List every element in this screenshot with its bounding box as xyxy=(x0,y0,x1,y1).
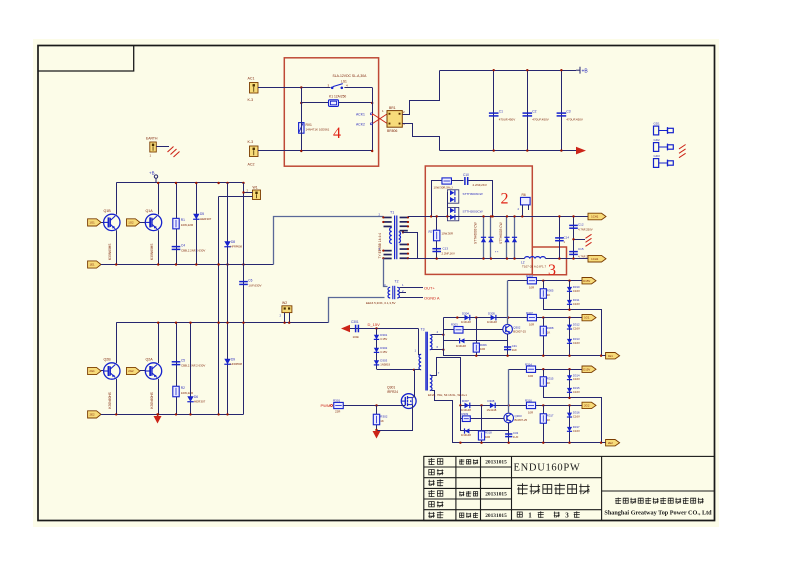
svg-text:ACK1: ACK1 xyxy=(356,112,365,116)
wire +B rail upper block xyxy=(116,182,244,184)
connector W1 xyxy=(253,190,261,200)
capacitor C14 xyxy=(555,238,564,241)
wire chassis stub xyxy=(574,239,586,241)
svg-text:C5: C5 xyxy=(181,359,185,363)
junction drain node xyxy=(413,369,415,371)
wire R6 pin2 xyxy=(528,205,530,210)
junction lower rail x243.5 xyxy=(242,263,244,265)
T1 core xyxy=(395,216,397,260)
junction lower bottom rail x157.5 xyxy=(156,413,158,415)
wire R6 pin1 xyxy=(522,205,524,217)
wire gd1 bottom row xyxy=(443,355,605,357)
transistor Q2B xyxy=(104,363,120,379)
junction W2 pin2 xyxy=(288,322,290,324)
T1 pin dot 408,217.4 xyxy=(407,216,409,218)
red group box 2 (output rectifier) xyxy=(425,166,532,274)
svg-text:C13: C13 xyxy=(443,247,449,251)
svg-text:T2: T2 xyxy=(395,280,399,284)
junction source node xyxy=(375,429,377,431)
diode D309 xyxy=(465,428,470,433)
junction W1 bus C xyxy=(242,191,244,193)
junction lower bottom rail x190.5 xyxy=(189,413,191,415)
junction secA top xyxy=(442,334,444,336)
junction C2 bottom xyxy=(526,149,528,151)
diode D4b xyxy=(450,215,455,220)
wire C5 branch vertical xyxy=(176,323,178,415)
junction lower top rail x158.2 xyxy=(157,322,159,324)
T1 primary winding arcs xyxy=(390,228,392,244)
aux part R6 jumper xyxy=(521,197,531,205)
power port +B (cap bank) xyxy=(576,67,588,75)
svg-text:D308: D308 xyxy=(488,399,495,403)
wire W1 pin2 to bus A xyxy=(219,196,253,198)
wire output return row right xyxy=(546,258,589,260)
red group box 3 (output choke) xyxy=(532,247,566,275)
junction gd2 top zener xyxy=(568,368,570,370)
wire PWM to R301 xyxy=(332,405,334,407)
wire lower rail to T2 primary xyxy=(329,298,385,323)
junction lower rail x196.3 xyxy=(195,263,197,265)
svg-text:10R: 10R xyxy=(485,435,490,439)
wire Q301 source xyxy=(377,405,413,431)
svg-text:1K: 1K xyxy=(380,419,384,423)
approver name 徐德进 xyxy=(460,512,479,518)
resistor R2 snubber xyxy=(173,386,179,397)
wire Q1B collector xyxy=(116,183,118,215)
wire zener col2 gd2 xyxy=(569,405,571,442)
wire R306 branch xyxy=(476,318,478,356)
power ground arrow lower block xyxy=(154,416,162,424)
svg-text:Q1B: Q1B xyxy=(104,209,112,213)
svg-text:4.7NF,250V: 4.7NF,250V xyxy=(578,227,593,231)
svg-text:BR1: BR1 xyxy=(389,106,396,110)
svg-text:IRFR24: IRFR24 xyxy=(387,390,398,394)
diode D3b xyxy=(450,197,455,202)
junction gd1 mid 1 xyxy=(507,316,509,318)
wire zener chain xyxy=(376,329,378,370)
T1 pin dot 408,258.2 xyxy=(407,257,409,259)
svg-text:T1: T1 xyxy=(390,211,394,215)
power arrow D_15V (left) xyxy=(341,325,350,333)
junction gd1 mid 2 xyxy=(542,316,544,318)
power arrow negative rail xyxy=(576,147,586,155)
junction gd2 mid 0 xyxy=(459,404,461,406)
svg-text:Q1A: Q1A xyxy=(146,209,154,213)
diode D304 xyxy=(465,315,470,321)
wire Q301 drain xyxy=(413,370,415,398)
wire AC2 to rail xyxy=(258,150,372,152)
svg-text:4: 4 xyxy=(333,125,341,142)
T2 primary arcs xyxy=(388,287,390,298)
wire T3 secA bottom xyxy=(431,349,443,351)
svg-text:3: 3 xyxy=(565,511,569,519)
junction gd1 bottom x507.6 xyxy=(506,355,508,357)
junction rect diode bot 11 xyxy=(513,257,515,259)
wire T2 secondary pin2 stub xyxy=(400,292,407,294)
junction gd2 bottom x569.5 xyxy=(568,442,570,444)
svg-text:14N471K 10D561: 14N471K 10D561 xyxy=(306,128,330,132)
svg-text:AC2: AC2 xyxy=(248,163,255,167)
svg-text:D5: D5 xyxy=(200,212,204,216)
wire gd1 top row xyxy=(508,280,582,282)
wire negative bottom rail xyxy=(440,150,576,152)
wire rect diode 10 vertical xyxy=(506,216,508,258)
junction emitter rail bus A xyxy=(217,263,219,265)
svg-text:R304: R304 xyxy=(526,274,533,278)
T3 primary arcs xyxy=(419,354,421,369)
junction C12 bot xyxy=(572,257,574,259)
connector 1G1 out xyxy=(582,314,596,320)
svg-text:10W,22R: 10W,22R xyxy=(181,223,194,227)
svg-text:STTH3003CW: STTH3003CW xyxy=(463,192,483,196)
svg-text:C2: C2 xyxy=(532,110,536,114)
wire emitter rail lower block xyxy=(101,414,244,416)
connector 2G1 (gate Q2B) xyxy=(88,367,101,374)
svg-text:2.2NF,1KV: 2.2NF,1KV xyxy=(442,252,456,256)
connector AC1 xyxy=(250,83,259,94)
junction snubber right xyxy=(492,215,494,217)
svg-text:OGND A: OGND A xyxy=(424,296,440,301)
junction mid link xyxy=(568,309,570,311)
svg-text:2G2: 2G2 xyxy=(584,404,590,408)
power port +B upper block xyxy=(149,171,158,184)
svg-text:1K: 1K xyxy=(547,381,551,385)
svg-text:PWM: PWM xyxy=(321,403,331,408)
diode D6 xyxy=(187,396,193,401)
T1 pin dot 383.3,258.2 xyxy=(382,257,384,259)
title row label 2 (Chinese) xyxy=(429,469,444,475)
wire D15V rail xyxy=(350,328,360,330)
zener D301 xyxy=(374,335,379,340)
border frame xyxy=(38,46,715,521)
svg-text:C14: C14 xyxy=(564,235,570,239)
junction diode pack xyxy=(446,215,448,217)
wire diode packs feed xyxy=(447,192,449,216)
auditor name 刘纪周 xyxy=(459,491,478,497)
svg-text:1G1: 1G1 xyxy=(89,221,95,225)
svg-text:+B: +B xyxy=(582,68,589,74)
wire T2 secondary pin3 xyxy=(400,297,424,299)
junction lower rail x158.2 xyxy=(157,263,159,265)
svg-text:W1: W1 xyxy=(253,185,258,189)
wire T2 secondary pin1 xyxy=(400,287,424,289)
stud terminal GD3 xyxy=(654,159,674,168)
junction AC2 left node xyxy=(300,150,302,152)
svg-text:1G2: 1G2 xyxy=(128,221,134,225)
svg-text:W2: W2 xyxy=(282,301,287,305)
wire bus A vertical xyxy=(218,197,220,415)
T1 pin dot 383.3,250.6 xyxy=(382,250,384,252)
T1 pin dot 408,249 xyxy=(407,248,409,250)
junction rect diode top 11 xyxy=(513,215,515,217)
connector W2 xyxy=(282,306,292,313)
capacitor C13a xyxy=(432,249,441,252)
wire Q303 emitter xyxy=(508,369,510,413)
junction C1 top xyxy=(493,69,495,71)
diode D306 xyxy=(460,338,465,343)
mosfet Q301 xyxy=(401,394,416,409)
wire +B top rail xyxy=(440,70,576,72)
svg-text:BC807-25: BC807-25 xyxy=(513,329,526,333)
svg-text:C15: C15 xyxy=(578,247,584,251)
junction rect diode bot 01 xyxy=(490,257,492,259)
junction gd2 mid 1 xyxy=(508,404,510,406)
svg-text:K30N60HS: K30N60HS xyxy=(150,243,154,260)
svg-text:EARTH: EARTH xyxy=(146,137,158,141)
diode D5 xyxy=(193,214,199,219)
T1 pin dot 408,222 xyxy=(407,221,409,223)
wire R308 branch xyxy=(543,318,545,356)
svg-text:D8: D8 xyxy=(231,240,235,244)
transistor Q1B xyxy=(104,214,120,230)
junction gd2 bottom x508.7 xyxy=(508,442,510,444)
wire zener col1 gd2 xyxy=(569,369,571,398)
svg-text:2E2: 2E2 xyxy=(608,441,613,445)
junction C3 bottom xyxy=(560,149,562,151)
junction R7 bottom xyxy=(436,257,438,259)
connector AC2 xyxy=(250,146,259,157)
connector OUT1+ xyxy=(588,213,606,220)
wire Q2A emitter xyxy=(158,379,160,415)
junction lower rail x176 xyxy=(175,263,177,265)
svg-text:R7: R7 xyxy=(429,230,433,234)
wire Q1A collector xyxy=(158,183,160,215)
wire gd1 aux to collector xyxy=(507,341,509,342)
svg-text:1UF: 1UF xyxy=(513,435,519,439)
svg-text:1N4148: 1N4148 xyxy=(487,408,497,412)
chassis ground at GD2 xyxy=(679,145,686,158)
junction W2 pin1 xyxy=(283,322,285,324)
wire switch to right rail xyxy=(344,87,372,89)
connector 1E1 (emitter) xyxy=(88,261,101,268)
junction C12 top xyxy=(572,215,574,217)
resistor R317 xyxy=(540,414,546,424)
connector 2E2 (emitter) xyxy=(88,411,101,418)
wire relay coil row xyxy=(301,102,372,104)
relay coil K1 xyxy=(329,100,339,107)
svg-text:ENDU160PW: ENDU160PW xyxy=(514,462,581,473)
T1 pin dot 408,253.6 xyxy=(407,253,409,255)
junction C2 top xyxy=(526,69,528,71)
wire D5 branch vertical xyxy=(196,183,198,265)
svg-text:2G1: 2G1 xyxy=(89,369,95,373)
wire bus C vertical xyxy=(243,183,245,414)
junction coil left xyxy=(300,102,302,104)
svg-text:10R: 10R xyxy=(529,286,534,290)
svg-text:GD3: GD3 xyxy=(654,154,661,158)
capacitor C4 snubber xyxy=(172,247,181,250)
title row label 3 (Chinese) xyxy=(428,479,443,486)
svg-text:100n: 100n xyxy=(353,335,360,339)
junction gd2 mid link xyxy=(568,397,570,399)
resistor R308 xyxy=(540,326,546,336)
svg-text:AC1: AC1 xyxy=(248,76,255,80)
svg-text:C16V: C16V xyxy=(573,289,580,293)
junction rect diode bot 00 xyxy=(482,257,484,259)
diode D307 xyxy=(465,403,470,409)
rectifier diode D111 xyxy=(512,237,517,242)
title row label 5 (Chinese) xyxy=(429,501,444,507)
junction lower top rail x176 xyxy=(175,322,177,324)
svg-text:470UF,450V: 470UF,450V xyxy=(499,118,516,122)
junction R7 top xyxy=(436,215,438,217)
junction R6 xyxy=(521,215,523,217)
T2 secondary arcs xyxy=(397,287,399,298)
diode D308 xyxy=(490,403,495,409)
resistor R318 xyxy=(478,431,484,440)
junction upper rail x243.5 xyxy=(242,182,244,184)
junction C14 top xyxy=(558,215,560,217)
svg-text:22R: 22R xyxy=(335,409,340,413)
wire gd1 left edge xyxy=(443,318,445,356)
svg-text:C12: C12 xyxy=(578,223,584,227)
capacitor C3 plates xyxy=(557,113,567,116)
wire upper emitter to T1 primary top xyxy=(274,217,384,265)
resistor R315 xyxy=(540,377,546,387)
svg-text:K30N60HS: K30N60HS xyxy=(150,391,154,408)
resistor R309 xyxy=(462,416,470,422)
connector 1E1 out xyxy=(606,353,620,359)
svg-text:1: 1 xyxy=(528,511,532,519)
red group box 4 (input relay) xyxy=(284,58,378,166)
junction rect diode top 01 xyxy=(490,215,492,217)
zener D302 xyxy=(374,348,379,353)
svg-text:R314: R314 xyxy=(525,363,532,367)
junction upper rail x158.2 xyxy=(157,182,159,184)
svg-text:10W,30R: 10W,30R xyxy=(442,232,454,236)
svg-text:C3: C3 xyxy=(566,110,570,114)
svg-text:K1 12A/250: K1 12A/250 xyxy=(329,95,346,99)
svg-text:2.2NF,2KV: 2.2NF,2KV xyxy=(473,183,487,187)
connector D15V gd1 xyxy=(582,278,596,284)
junction gd1 top zener xyxy=(568,280,570,282)
inductor L2 xyxy=(525,257,546,259)
junction lower top rail x243.5 xyxy=(242,322,244,324)
svg-text:D_15V: D_15V xyxy=(368,322,381,327)
T3 secondary B arcs xyxy=(430,375,432,390)
junction lower bottom rail x116.2 xyxy=(115,413,117,415)
svg-text:10W,22R: 10W,22R xyxy=(181,391,194,395)
wire gd2 bottom row xyxy=(452,442,606,444)
connector EARTH xyxy=(150,142,157,152)
wire Q302 collector xyxy=(507,334,509,356)
svg-text:10R: 10R xyxy=(528,410,533,414)
diode D4a xyxy=(450,208,455,213)
resistor R303 xyxy=(454,327,463,334)
svg-text:D307: D307 xyxy=(462,399,469,403)
wire gd1 aux row xyxy=(443,340,507,342)
junction rect diode top 00 xyxy=(482,215,484,217)
zener D311 xyxy=(567,300,572,304)
capacitor C6 dc-block xyxy=(239,282,248,285)
connector 2G2 (gate Q2A) xyxy=(126,367,139,374)
wire R315 branch xyxy=(544,370,602,443)
resistor R5 snubber xyxy=(442,178,452,184)
wire W2 pin2 xyxy=(289,313,291,323)
junction gd1 bottom x601.1 xyxy=(600,355,602,357)
junction gd2 bottom x460.4 xyxy=(459,442,461,444)
wire R305 branch xyxy=(544,281,602,356)
resistor R305 xyxy=(540,289,546,299)
svg-text:D305: D305 xyxy=(488,311,495,315)
wire gate Q2A xyxy=(140,370,145,372)
junction gd1 bottom x543.3 xyxy=(542,355,544,357)
svg-text:3: 3 xyxy=(548,262,556,279)
capacitor C32 xyxy=(505,434,512,437)
T3 core xyxy=(426,332,427,391)
page row 共 xyxy=(554,512,560,518)
wire C10 down xyxy=(469,181,493,217)
wire R301 to gate xyxy=(343,405,405,407)
svg-text:R309: R309 xyxy=(462,412,469,416)
T1 pin dot 403,232.4 xyxy=(402,231,404,233)
wire R317 branch xyxy=(543,405,545,442)
wire D15V rail 2 xyxy=(360,328,419,330)
junction gd2 mid 2 xyxy=(542,404,544,406)
T1 left-top winding bars xyxy=(384,217,392,228)
svg-text:470UF,450V: 470UF,450V xyxy=(532,118,549,122)
capacitor C5 snubber xyxy=(172,362,181,365)
junction AC2 right node xyxy=(371,150,373,152)
wire rect diode 11 vertical xyxy=(514,216,516,258)
svg-text:HFRP608: HFRP608 xyxy=(231,362,243,366)
wire emitter rail upper block xyxy=(101,264,274,266)
junction gd2 bottom x481.5 xyxy=(480,442,482,444)
svg-text:CBB,2.2NF,2 630V: CBB,2.2NF,2 630V xyxy=(181,364,205,368)
svg-text:HFRP608: HFRP608 xyxy=(231,244,243,248)
wire gd2 left edge xyxy=(460,405,462,431)
T1 right secondary arcs xyxy=(399,232,401,243)
resistor R314 xyxy=(526,366,535,372)
svg-text:10W,30R,5%,J: 10W,30R,5%,J xyxy=(434,186,454,190)
wire Q303 base row xyxy=(460,418,504,420)
junction lower rail x116.2 xyxy=(115,263,117,265)
junction C14 bot xyxy=(558,257,560,259)
title row label 4 (Chinese) xyxy=(428,490,443,497)
wire output positive row xyxy=(408,216,588,218)
wire gate Q1B xyxy=(101,222,104,224)
svg-text:CBB,2.2NF,2 630V: CBB,2.2NF,2 630V xyxy=(181,249,205,253)
zener D317 xyxy=(567,427,572,431)
wire gd2 mid row xyxy=(460,405,582,407)
wire rect diode 01 vertical xyxy=(490,216,492,258)
svg-text:C10: C10 xyxy=(463,173,469,177)
wire ground stub lower block xyxy=(157,414,159,416)
zener D312 xyxy=(567,325,572,329)
svg-text:2G2: 2G2 xyxy=(128,369,134,373)
svg-text:D6: D6 xyxy=(194,395,198,399)
svg-text:+B: +B xyxy=(149,171,155,176)
wire T1 center tap xyxy=(403,233,418,259)
wire R5 to C10 xyxy=(452,180,464,182)
svg-text:HER307: HER307 xyxy=(194,400,206,404)
connector 2G2 out xyxy=(582,402,596,408)
svg-text:R301: R301 xyxy=(333,398,341,402)
svg-text:20131015: 20131015 xyxy=(485,492,507,498)
stud terminal GD2 xyxy=(654,143,674,152)
T1 pin dot 408,226.4 xyxy=(407,225,409,227)
junction C1 bottom xyxy=(493,149,495,151)
junction lower bottom rail x158.2 xyxy=(157,413,159,415)
wire cap C1 vertical xyxy=(493,70,495,150)
svg-text:C6: C6 xyxy=(248,279,252,283)
company name 上海广为拓浦电源有限公司 xyxy=(615,497,703,504)
wire Q2A collector xyxy=(158,323,160,363)
wire T3 secB bottom xyxy=(432,391,453,443)
svg-text:RV1: RV1 xyxy=(306,123,313,127)
svg-text:1K: 1K xyxy=(547,418,551,422)
svg-text:1UF,630V: 1UF,630V xyxy=(248,283,261,287)
